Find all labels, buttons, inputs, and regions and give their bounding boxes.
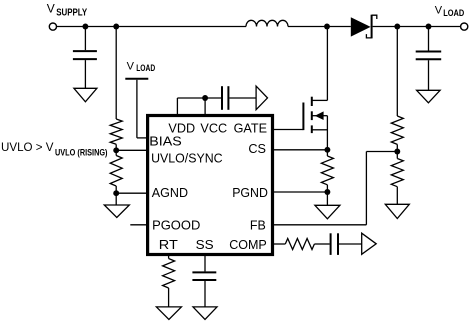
svg-text:AGND: AGND [152, 186, 188, 200]
svg-text:LOAD: LOAD [136, 63, 155, 73]
svg-text:BIAS: BIAS [149, 134, 181, 148]
svg-text:SUPPLY: SUPPLY [56, 8, 87, 19]
svg-text:UVLO (RISING): UVLO (RISING) [55, 148, 108, 158]
svg-text:COMP: COMP [229, 238, 267, 252]
svg-text:VDD: VDD [168, 121, 195, 135]
svg-text:LOAD: LOAD [443, 8, 464, 18]
svg-text:V: V [47, 1, 55, 15]
svg-text:UVLO/SYNC: UVLO/SYNC [151, 151, 223, 165]
svg-text:UVLO > V: UVLO > V [1, 140, 54, 154]
svg-text:RT: RT [159, 238, 178, 252]
svg-text:CS: CS [248, 142, 266, 156]
svg-text:FB: FB [250, 218, 266, 232]
svg-text:GATE: GATE [234, 121, 267, 135]
svg-text:VCC: VCC [200, 121, 227, 135]
svg-text:V: V [435, 4, 443, 16]
svg-text:SS: SS [196, 238, 214, 252]
svg-text:V: V [127, 60, 135, 72]
svg-text:PGND: PGND [232, 186, 268, 200]
svg-text:PGOOD: PGOOD [152, 218, 200, 232]
